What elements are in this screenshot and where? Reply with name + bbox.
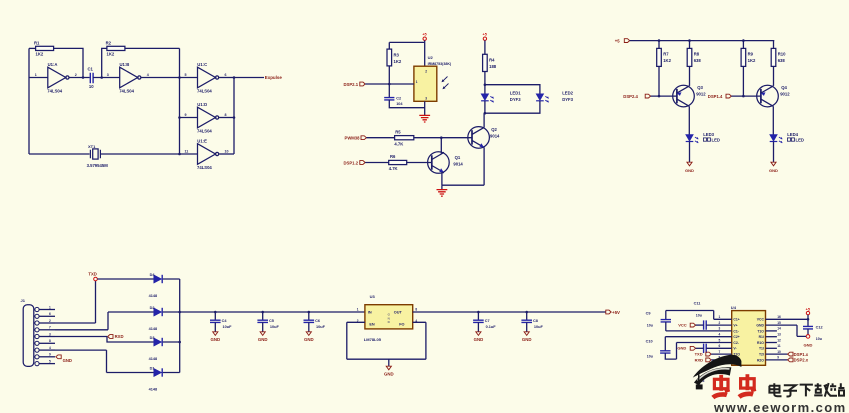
wire U1A output [69,77,89,79]
wire +5 E stub [807,315,809,320]
wire U4 row4 [665,336,731,338]
capacitor C8 plates [521,320,532,322]
wire D4 to bus [163,278,180,280]
capacitor C5 lead [262,312,264,320]
LED LED3 [686,135,694,142]
svg-text:LED1: LED1 [510,90,521,95]
svg-text:D2: D2 [150,306,155,310]
wire U3 gnd stub [388,359,390,366]
wire D3 to bus [163,341,180,343]
svg-text:Q4: Q4 [781,85,787,90]
wire J1 pin stub 7 [39,349,55,351]
svg-text:GND: GND [210,337,220,342]
junction B4 [484,112,487,115]
svg-text:10uF: 10uF [534,325,544,329]
svg-text:638: 638 [778,58,786,63]
junction B1 [388,83,391,86]
svg-text:9014: 9014 [453,162,463,167]
svg-text:15: 15 [777,321,781,325]
capacitor C6 gnd arrow [306,332,311,336]
junction rail C8 [525,311,528,314]
svg-text:R2O: R2O [757,358,764,362]
connector J1 pin circle 4 [35,328,39,332]
wire C12 bottom [807,329,809,335]
wire Q4 collector [772,106,774,134]
resistor R1 [36,46,54,50]
wire R10 top [773,41,775,49]
svg-text:OUT: OUT [394,311,403,315]
transistor Q3 [673,85,695,107]
svg-text:R1: R1 [34,40,40,45]
wire pin7 to D1 [55,350,154,372]
svg-text:4: 4 [719,333,721,337]
junction C2 [658,95,661,98]
wire R1 left [29,47,36,49]
capacitor C4 gnd arrow [213,332,218,336]
wire U4 right stub 6 [766,347,777,349]
port VCC E [690,323,695,327]
connector J1 body [23,305,34,367]
wire R7 bottom [658,66,660,96]
capacitor C5 lead2 [262,322,264,331]
capacitor C1 [90,73,93,84]
wire TXD to D4 [97,278,153,280]
svg-text:VCC: VCC [757,318,765,322]
svg-text:TXD: TXD [695,352,703,357]
wire J1 pin stub 1 [39,309,55,311]
svg-text:1K2: 1K2 [394,59,402,64]
junction A5 [178,116,181,119]
power +5 E circle [806,311,809,314]
wire top B [389,42,424,49]
wire D2 to bus [163,311,180,313]
wire C12 top [807,319,809,326]
svg-text:RXD: RXD [695,358,704,363]
svg-text:1: 1 [719,315,721,319]
wire Q2 emitter [483,147,485,185]
svg-text:TXD: TXD [88,271,96,276]
transistor Q1 [428,152,450,174]
wire U4 row3 [666,330,732,332]
svg-text:6: 6 [719,344,721,348]
wire C2 bottom [389,100,424,108]
svg-text:10uF: 10uF [316,325,326,329]
wire Q1 collector [441,138,444,153]
gnd port C2 [771,162,776,166]
wire Q3 collector [688,106,690,134]
svg-text:1K2: 1K2 [107,51,115,56]
svg-text:8: 8 [415,308,417,312]
svg-text:Q2: Q2 [491,127,497,132]
svg-text:8: 8 [49,339,51,343]
wire DSP1.4 to Q4 [731,95,761,97]
capacitor C4 lead [214,312,216,320]
junction A6 [233,116,236,119]
transistor Q2 [468,127,490,149]
capacitor C6 lead2 [308,322,310,331]
svg-text:U1:D: U1:D [197,102,207,107]
wire J1 pin stub 4 [39,329,55,331]
svg-text:74LS04: 74LS04 [119,88,134,93]
junction rail C5 [261,311,264,314]
wire U3 side pins [347,322,426,359]
svg-text:16: 16 [777,315,781,319]
svg-text:LED: LED [712,137,720,142]
wire LED1 bottom [484,101,486,113]
junction B3 [484,83,487,86]
gnd port C1 [687,162,692,166]
wire main rail [180,311,365,313]
wire R2 feedback [125,47,180,49]
svg-text:6: 6 [225,73,227,77]
diode D2 [154,308,162,316]
resistor R2 [107,46,125,50]
wire DSP1.2 to R6 [365,162,389,164]
wire pin5 to RXD [55,336,107,338]
svg-text:3: 3 [49,332,51,336]
wire +5 to R4 [484,40,486,54]
wire J1 pin stub 8 [39,356,55,358]
watermark dianzi text [769,383,844,397]
svg-text:Q3: Q3 [697,85,703,90]
wire C9 column top [665,311,667,320]
port RXD [108,335,113,339]
svg-text:PWM38: PWM38 [345,135,361,140]
svg-text:74LS04: 74LS04 [197,128,212,133]
capacitor C7 lead2 [477,322,479,331]
junction C1 [658,39,661,42]
svg-text:DSP1.x: DSP1.x [794,352,809,357]
svg-text:10uF: 10uF [270,325,280,329]
svg-text:10: 10 [225,150,229,154]
wire R9 bottom [742,66,744,96]
capacitor C5 gnd arrow [260,332,265,336]
connector J1 pin circle 3 [35,321,39,325]
wire DSP2.1 to U2 [365,83,414,85]
op-amp U1:C [198,67,216,88]
wire U4 right stub 5 [766,342,777,344]
wire R6 to Q1 base [407,162,432,164]
wire J1 pin stub 5 [39,336,55,338]
svg-text:6: 6 [49,312,51,316]
wire diode bus [179,279,181,373]
wire U4 row5 [677,342,732,344]
wire R10 to Q4 emitter [773,66,775,86]
svg-text:C1+: C1+ [733,318,739,322]
svg-text:GND: GND [677,346,686,351]
svg-text:5: 5 [49,360,51,364]
svg-text:1K2: 1K2 [36,51,44,56]
svg-text:C1: C1 [88,67,94,72]
port DSP2.1 [360,82,365,86]
svg-text:74LS04: 74LS04 [47,88,62,93]
connector J1 pin circle 9 [35,362,39,366]
connector J1 pin circle 2 [35,314,39,318]
junction C3 [688,39,691,42]
svg-text:1K2: 1K2 [663,58,671,63]
svg-text:DYF3: DYF3 [510,97,521,102]
junction A4 [233,76,236,79]
port GND E [690,346,695,350]
wire J1 pin stub 6 [39,342,55,344]
diode D1 [154,368,162,376]
svg-text:10: 10 [89,84,94,89]
IR arrows [442,77,448,89]
svg-text:LM78L05: LM78L05 [364,337,382,342]
svg-text:U2: U2 [428,55,434,60]
resistor R9 [741,48,746,66]
IR receiver U2 [414,66,437,101]
capacitor C7 plates [473,320,484,322]
wire input bus [179,48,181,154]
capacitor C8 lead [526,312,528,320]
ground B2 [437,190,448,197]
svg-text:FO: FO [399,322,404,326]
svg-text:7: 7 [49,326,51,330]
diode D3 [154,338,162,346]
port DSP1.2 [360,161,365,165]
capacitor C13 [704,344,707,353]
wire DSP2.4 to Q3 [651,95,677,97]
svg-text:0.1uF: 0.1uF [486,325,497,329]
LED LED4 [770,135,778,142]
capacitor C7 gnd arrow [476,332,481,336]
svg-text:9: 9 [49,353,51,357]
svg-text:T2I: T2I [759,353,764,357]
wire U4 R2O out [766,359,788,361]
svg-text:U1:E: U1:E [197,139,207,144]
resistor R7 [657,48,662,66]
svg-text:3: 3 [107,73,109,77]
port DSP1.x [788,352,793,356]
crystal XT1 [90,150,100,159]
junction rail C6 [308,311,311,314]
wire U1E output [219,153,234,155]
op-amp U1:D [198,107,216,128]
transistor Q4 [757,85,779,107]
svg-text:U1:B: U1:B [120,62,130,67]
svg-text:10uF: 10uF [223,325,233,329]
svg-text:R10: R10 [778,52,786,57]
svg-text:R2: R2 [106,40,112,45]
svg-text:VCC: VCC [678,322,687,327]
svg-text:5: 5 [719,338,721,342]
wire U4 row1 [666,311,732,320]
svg-text:10u: 10u [696,314,702,318]
wire R2 left leg [102,48,107,77]
svg-text:GND: GND [522,337,532,342]
svg-text:IRM8753(38K): IRM8753(38K) [428,62,452,66]
svg-text:C6: C6 [315,319,320,323]
svg-text:1: 1 [357,308,359,312]
svg-text:10u: 10u [816,337,822,341]
wire to net label [234,77,264,79]
wire U4 right stub 4 [766,336,777,338]
wire pin4 to rail [55,312,108,330]
wire C10 column bottom [665,353,676,359]
port DSP1.4 [726,94,731,98]
wire U1A input [29,77,48,79]
svg-text:V+: V+ [733,324,737,328]
resistor R10 [771,48,776,66]
wire U1D output [219,117,234,119]
svg-text:1: 1 [416,80,418,84]
svg-text:XT1: XT1 [88,144,96,149]
junction C4 [742,39,745,42]
svg-text:GND: GND [63,358,72,363]
svg-text:4148: 4148 [149,388,157,392]
svg-text:RXD: RXD [115,334,124,339]
svg-text:GND: GND [384,371,394,376]
svg-text:GND: GND [769,168,778,173]
junction rail C7 [477,311,480,314]
capacitor C9 [661,320,671,322]
svg-text:U1:A: U1:A [48,62,58,67]
wire R4 to LEDs [484,72,486,85]
svg-text:2: 2 [719,321,721,325]
capacitor C6 plates [304,320,315,322]
port GND J1 [56,355,61,359]
junction A1 [82,76,85,79]
wire R1 feedback [54,48,83,77]
svg-text:EN: EN [369,322,375,326]
svg-text:9012: 9012 [696,92,706,97]
svg-text:T1I: T1I [759,347,764,351]
gnd port U3 [386,366,391,370]
wire PWM to R5 [366,137,394,139]
svg-text:C2: C2 [396,96,401,100]
svg-text:9: 9 [185,113,187,117]
svg-text:U3: U3 [370,294,376,299]
capacitor C6 lead [308,312,310,320]
LED LED1 [481,94,489,101]
svg-text:3: 3 [719,327,721,331]
connector J1 pin circle 7 [35,348,39,352]
svg-text:R4: R4 [489,58,495,63]
junction D1 [178,311,181,314]
ground B1 [419,115,430,122]
svg-text:C2+: C2+ [733,335,739,339]
power +5 B2 circle [483,37,486,40]
connector J1 pin circle 6 [35,341,39,345]
wire LED4 bottom [773,142,775,162]
wire J1 pin stub 9 [39,363,55,365]
resistor R6 [389,160,407,164]
svg-text:LED: LED [796,137,804,142]
wire crystal to U1E [101,153,198,155]
svg-text:DYF3: DYF3 [562,97,573,102]
svg-text:U1:C: U1:C [197,62,207,67]
wire C10 column top [664,337,666,351]
svg-text:5: 5 [185,73,187,77]
capacitor C4 lead2 [214,322,216,331]
port DSP2.x [788,358,793,362]
capacitor C5 plates [257,320,268,322]
wire RXD down [107,337,154,343]
wire +5 rail C [630,40,775,42]
LED3 cjk value [703,138,706,141]
wire LED3 bottom [689,142,691,162]
resistor R5 [395,136,414,140]
wire D1 to bus [163,372,180,374]
regulator U3 [365,305,413,329]
svg-text:10u: 10u [647,324,653,328]
svg-text:11: 11 [777,344,781,348]
svg-text:DSP1.4: DSP1.4 [708,94,723,99]
junction E1 [807,318,810,321]
wire J1 pin stub 2 [39,315,55,317]
wire R5 to Q2 base [414,137,472,139]
svg-text:U4: U4 [731,305,737,310]
svg-text:4148: 4148 [149,357,157,361]
svg-text:GND: GND [756,324,764,328]
svg-text:T1O: T1O [757,329,764,333]
svg-text:3.579545M: 3.579545M [87,163,109,168]
wire rail to D2 [108,311,154,313]
svg-text:R9: R9 [748,52,754,57]
svg-text:4148: 4148 [149,327,157,331]
wire J1 pin stub 3 [39,322,55,324]
svg-text:R5: R5 [395,129,401,134]
svg-text:12: 12 [777,338,781,342]
svg-text:4: 4 [49,346,51,350]
svg-text:104: 104 [396,102,403,106]
junction rail C4 [214,311,217,314]
svg-text:7: 7 [719,350,721,354]
svg-text:3: 3 [425,97,427,101]
wire Q2 collector [483,113,485,127]
svg-text:+5: +5 [615,38,620,43]
svg-text:C10: C10 [646,340,653,344]
svg-text:1: 1 [49,305,51,309]
wire C13 to U4 [706,347,732,349]
wire U1C output [219,77,234,79]
svg-text:GND: GND [685,168,694,173]
svg-text:GND: GND [258,337,268,342]
svg-text:DSP2.x: DSP2.x [794,358,809,363]
junction A3 [178,76,181,79]
gnd port E circle [806,335,810,339]
svg-text:DSP2.4: DSP2.4 [623,94,638,99]
capacitor C2 [384,98,394,100]
connector J1 pin circle 8 [35,355,39,359]
svg-text:4.7K: 4.7K [394,142,403,147]
svg-text:C12: C12 [816,325,823,329]
svg-text:R8: R8 [694,52,700,57]
wire +5 stub B1 [424,40,426,42]
wire TXD to U4 [711,353,732,355]
svg-text:V-: V- [733,347,736,351]
junction C5 [742,95,745,98]
power +5 B1 circle [423,37,426,40]
wire Q1 emitter [442,173,444,186]
svg-text:9014: 9014 [490,134,500,139]
capacitor C8 gnd arrow [524,332,529,336]
svg-text:R6: R6 [390,154,396,159]
svg-text:R3: R3 [394,52,400,57]
wire U1D input [180,117,198,119]
svg-text:LED2: LED2 [562,90,573,95]
wire VCC to C11 [696,324,704,326]
junction A7 [178,153,181,156]
svg-text:4: 4 [147,73,149,77]
wire RXD to U4 [711,359,732,361]
svg-text:R1I: R1I [759,335,764,339]
capacitor C4 plates [210,320,221,322]
connector J1 pin circle 5 [35,334,39,338]
connector J1 pin circle 1 [35,307,39,311]
svg-text:Expulse: Expulse [265,75,283,80]
